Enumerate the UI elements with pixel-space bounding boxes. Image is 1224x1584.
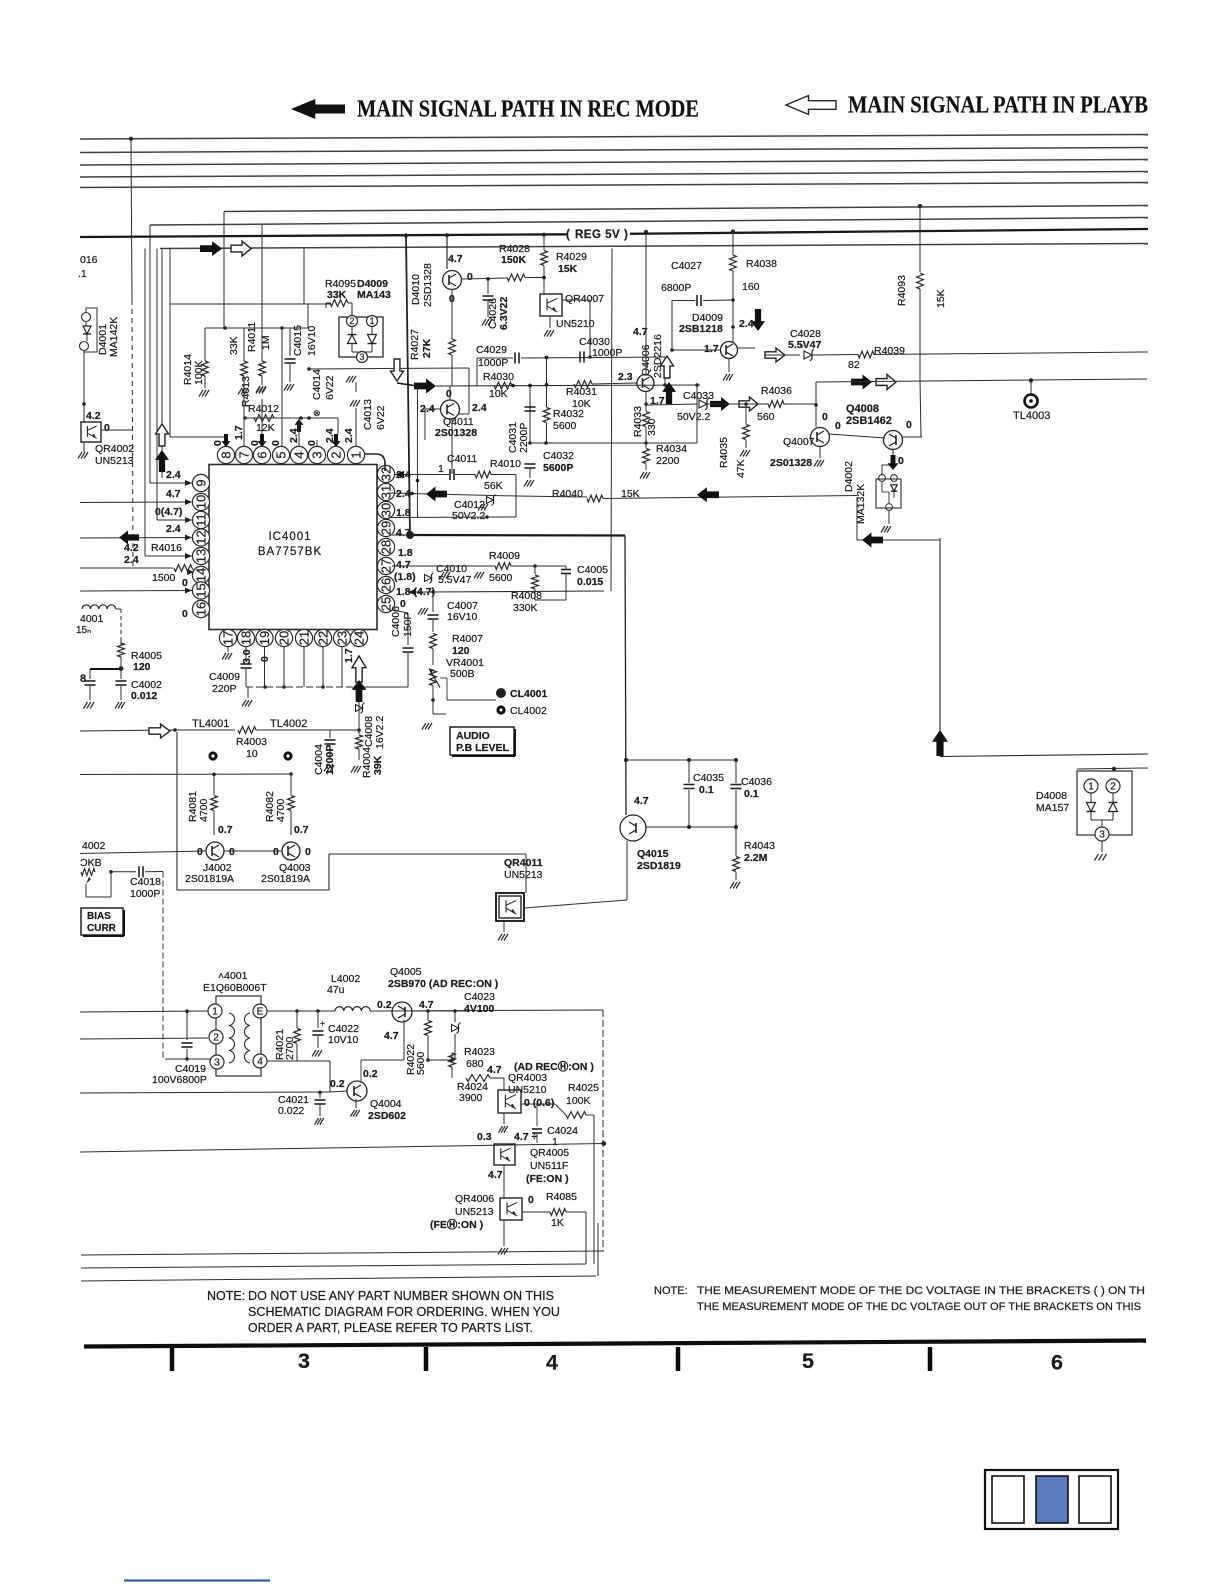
vertical wire x308 (307, 304, 309, 328)
svg-text:6V22: 6V22 (375, 405, 387, 430)
capacitor C4027 (696, 295, 698, 306)
capacitor C4022 10V10 (317, 1011, 319, 1028)
svg-text:2.4: 2.4 (166, 469, 181, 481)
svg-text:160: 160 (742, 281, 760, 293)
wire to R4031 (554, 384, 700, 385)
svg-text:82: 82 (848, 359, 860, 371)
svg-text:0: 0 (212, 440, 224, 446)
wire Q4015 collector vertical (625, 536, 626, 816)
svg-text:2200: 2200 (656, 455, 680, 467)
resistor R4011 1M (261, 328, 263, 361)
wire secondary 4 out (267, 1060, 297, 1062)
wire Q4008 emitter down to D4002 (892, 450, 894, 466)
ground QR4002 (83, 442, 85, 452)
svg-text:1000P: 1000P (130, 888, 160, 900)
resistor R4040 15K (587, 495, 603, 502)
svg-text:330K: 330K (513, 602, 538, 614)
long vertical wire x603 (602, 1010, 604, 1251)
opto QR4005 UN511F (494, 1144, 515, 1165)
svg-text:UN5213: UN5213 (504, 869, 543, 881)
svg-text:1: 1 (1088, 781, 1094, 792)
bus wire 2 (80, 148, 1148, 153)
svg-text:C4005: C4005 (577, 564, 608, 576)
svg-text:TL4003: TL4003 (1013, 410, 1050, 422)
wire cluster second (205, 327, 308, 329)
svg-text:C4006: C4006 (390, 606, 402, 637)
wire row 687 (246, 686, 359, 688)
diode pack D4001 MA142K (82, 313, 91, 322)
svg-text:100V6800P: 100V6800P (152, 1074, 207, 1086)
svg-text:4V100: 4V100 (464, 1003, 495, 1015)
svg-text:R4038: R4038 (746, 258, 777, 270)
svg-text:0 (0.6): 0 (0.6) (524, 1097, 554, 1109)
svg-text:R4040: R4040 (552, 488, 583, 500)
resistor R4022 5600 (427, 1011, 429, 1020)
transistor Q4008 (884, 431, 903, 450)
svg-text:4.7: 4.7 (384, 1030, 399, 1042)
wire R4095 to D4009 (348, 302, 352, 304)
pin14 wire resistor 1500 (80, 567, 173, 569)
svg-text:2SD1819: 2SD1819 (637, 860, 681, 872)
svg-text:R4007: R4007 (452, 633, 483, 645)
svg-text:UN5213: UN5213 (95, 455, 134, 467)
ground QR4003 (503, 1113, 505, 1124)
inductor L4001 15m (82, 605, 116, 609)
svg-text:18: 18 (238, 631, 253, 645)
resistor R4010 56K (475, 471, 491, 478)
transistor Q4004 2SD602 (347, 1081, 367, 1101)
svg-text:QR4006: QR4006 (455, 1193, 494, 1205)
capacitor C4015 16V10 (289, 328, 291, 356)
svg-text:BA7757BK: BA7757BK (258, 546, 322, 558)
svg-text:2SD2216: 2SD2216 (652, 334, 664, 378)
15K line pin31 net (389, 493, 516, 496)
svg-text:C4015: C4015 (292, 325, 304, 356)
svg-text:4001: 4001 (80, 613, 104, 625)
vertical feed x304 from bus9 (303, 249, 305, 305)
wire row 1092 to Q4004 (330, 1091, 347, 1092)
svg-text:D4002: D4002 (843, 461, 855, 492)
resistor R4004 39K (358, 730, 360, 734)
wire Q4015 emitter down (626, 841, 628, 900)
svg-text:1200P: 1200P (324, 745, 336, 775)
svg-text:0.7: 0.7 (294, 824, 309, 836)
nav page 2 active (1036, 1476, 1068, 1523)
wire row 756 right (940, 754, 1148, 757)
svg-text:Q4005: Q4005 (390, 966, 422, 978)
svg-text:R4034: R4034 (656, 443, 687, 455)
svg-text:0: 0 (528, 1194, 534, 1206)
direction arrows on bus 9 (200, 241, 222, 256)
wire Q4004 collector up (360, 1060, 362, 1083)
svg-text:8: 8 (80, 673, 86, 685)
svg-text:(1.8): (1.8) (394, 571, 416, 583)
svg-text:4.2: 4.2 (124, 542, 139, 554)
svg-text:+: + (320, 1018, 325, 1028)
svg-text:0: 0 (898, 455, 904, 467)
svg-text:ƆKB: ƆKB (80, 857, 102, 869)
wire L4002 out to x603 (370, 1010, 603, 1011)
svg-text:REG 5V: REG 5V (575, 229, 620, 241)
wire QR4002 out (101, 429, 133, 431)
wire input row 1092 (80, 1092, 330, 1093)
wire row 1143 (80, 1144, 604, 1153)
svg-text:13: 13 (193, 549, 208, 563)
svg-text:2: 2 (349, 316, 354, 326)
svg-text:21: 21 (296, 631, 311, 645)
capacitor C4007 16V10 (432, 592, 434, 612)
vertical feed x150 (149, 225, 151, 483)
black left arrow on 15K line (697, 487, 719, 502)
resistor R4032 5600 (546, 358, 548, 408)
svg-text:27: 27 (378, 559, 393, 573)
svg-text:0: 0 (270, 440, 282, 446)
svg-text:C4023: C4023 (464, 991, 495, 1003)
svg-text:4.7: 4.7 (396, 527, 411, 539)
svg-text:0.012: 0.012 (131, 690, 157, 702)
transistor Q4007 2SD1328 (811, 428, 830, 447)
svg-text:33K: 33K (327, 289, 347, 301)
bus wire 4 (80, 172, 1148, 178)
wire R4024 to QR4003 (490, 1077, 504, 1079)
svg-text:1: 1 (212, 1006, 218, 1017)
svg-text:100K: 100K (566, 1095, 591, 1107)
wire C4029 corner down (476, 358, 478, 386)
svg-text:D4008: D4008 (1036, 790, 1067, 802)
wire Q4002-Q4003 row (224, 850, 282, 852)
thick node row 669 (90, 668, 121, 670)
svg-text:15K: 15K (558, 263, 578, 275)
vertical x697 (696, 385, 698, 443)
resistor R4021 2700 (296, 1011, 298, 1028)
vertical wire x594 (593, 1115, 595, 1264)
transistor Q4015 2SD1819 (620, 815, 646, 841)
vertical box wire x170 (169, 249, 171, 438)
arrows row 382 (851, 375, 872, 390)
svg-text:D4010: D4010 (410, 274, 422, 305)
svg-text:10K: 10K (489, 388, 508, 400)
capacitor C4031 2200P (525, 406, 536, 408)
svg-text:CL4001: CL4001 (510, 688, 548, 700)
svg-text:THE MEASUREMENT MODE OF THE DC: THE MEASUREMENT MODE OF THE DC VOLTAGE I… (697, 1285, 1145, 1297)
svg-text:C4036: C4036 (741, 776, 772, 788)
capacitor C4036 0.1 (735, 760, 737, 783)
bottom wire row 1264 (81, 1264, 586, 1268)
capacitor C4006 150P (403, 647, 414, 649)
svg-text:47K: 47K (735, 459, 747, 478)
svg-text:30: 30 (378, 503, 393, 517)
svg-text:0: 0 (467, 271, 473, 283)
resistor R4030 10K (494, 382, 512, 389)
transistor Q4011 2SD1328 (441, 400, 460, 419)
title arrow solid (REC mode) (291, 99, 345, 119)
wire x469 corner to Q4011 emitter (468, 368, 470, 414)
arrow into pin32 (395, 471, 404, 478)
svg-text:12: 12 (193, 530, 208, 544)
svg-text:220P: 220P (212, 683, 237, 695)
svg-text:2SB970 (AD REC:ON ): 2SB970 (AD REC:ON ) (388, 978, 498, 990)
svg-text:R4027: R4027 (409, 329, 421, 360)
svg-text:4.2: 4.2 (86, 410, 101, 422)
junction (82, 402, 86, 406)
svg-text:2S01819A: 2S01819A (185, 873, 234, 885)
svg-text:2700: 2700 (284, 1036, 296, 1060)
wire pin24 down2 (358, 712, 360, 730)
svg-text:R4085: R4085 (546, 1191, 577, 1203)
svg-text:R4033: R4033 (632, 406, 644, 437)
svg-text:3: 3 (359, 352, 364, 362)
wire pin7 stub to R4013 (243, 376, 245, 447)
svg-text:4700: 4700 (275, 798, 287, 822)
svg-text:1.7: 1.7 (704, 343, 719, 355)
svg-text:27K: 27K (421, 338, 433, 358)
vertical wire x598 (597, 1223, 599, 1276)
thick signal wire pin29 right (410, 534, 625, 537)
svg-text:6V22: 6V22 (324, 375, 336, 400)
svg-text:4.7: 4.7 (396, 559, 411, 571)
svg-text:R4025: R4025 (568, 1082, 599, 1094)
svg-text:(: ( (566, 229, 570, 241)
svg-text:R4030: R4030 (483, 371, 514, 383)
resistor R4028 150K vertical (541, 251, 548, 266)
svg-text:TL4001: TL4001 (192, 718, 229, 730)
svg-text:2200P: 2200P (518, 423, 530, 453)
svg-text:E: E (257, 1006, 264, 1017)
vertical feed x262 to R4011 row (261, 225, 263, 328)
svg-text:1000P: 1000P (592, 347, 622, 359)
svg-text:33K: 33K (228, 336, 240, 355)
transformer pins (208, 1004, 222, 1018)
capacitor C4018 1000P (138, 866, 140, 877)
ground Q4007 (819, 446, 821, 458)
svg-text:3: 3 (298, 1349, 310, 1373)
svg-text:120: 120 (133, 661, 151, 673)
wire Q4009 emitter right arrow (738, 347, 755, 349)
svg-text:1000P: 1000P (478, 357, 508, 369)
svg-text:2SD1328: 2SD1328 (422, 263, 434, 307)
resistor R4009 5600 (495, 563, 511, 570)
resistor R4095 33K (330, 300, 348, 307)
svg-text:NOTE:: NOTE: (207, 1289, 245, 1303)
pin13 wire 4.2 R4016 (145, 555, 192, 557)
wire input row 1038 (80, 1038, 208, 1039)
resistor R4034 2200 (645, 443, 647, 448)
bus wire 1 (80, 135, 1148, 140)
svg-text:0.3: 0.3 (477, 1131, 492, 1143)
svg-text:3900: 3900 (459, 1092, 483, 1104)
svg-text:4002: 4002 (82, 840, 106, 852)
ruler tick 4 (928, 1347, 933, 1371)
transistor Q4010 2SD1328 (443, 271, 462, 290)
wire Q4005 base down (403, 1020, 405, 1060)
wire Q4005 base down (403, 1020, 405, 1045)
direction arrows up x667 (661, 356, 674, 378)
solid down arrow above D4002 (888, 455, 899, 470)
svg-text:C4032: C4032 (543, 450, 574, 462)
primary winding (229, 1013, 235, 1026)
svg-text:5600: 5600 (415, 1051, 427, 1075)
svg-text:2SB1462: 2SB1462 (846, 415, 892, 427)
svg-text:QR4007: QR4007 (565, 293, 604, 305)
resistor R4035 47K (745, 404, 747, 424)
wire D4002 net down to x940 (888, 0, 890, 538)
svg-text:BIAS: BIAS (87, 911, 111, 922)
svg-text:560: 560 (757, 411, 775, 423)
capacitor C4002 0.012 pair (89, 669, 91, 679)
capacitor C4032 5600P (525, 463, 536, 465)
vertical x163 down (162, 872, 164, 1060)
svg-text:0: 0 (306, 440, 318, 446)
svg-text:7: 7 (236, 451, 251, 458)
svg-text:0: 0 (197, 846, 203, 858)
svg-text:Q4015: Q4015 (637, 848, 669, 860)
resistor R4039 82 (858, 351, 874, 358)
resistor R4012 12K (245, 417, 338, 419)
ground pin17 (227, 647, 229, 652)
bus wire 6 (224, 206, 1148, 212)
svg-text:C4029: C4029 (476, 344, 507, 356)
svg-text:2: 2 (1110, 781, 1116, 792)
wire QR4007 right to vert (562, 299, 590, 301)
svg-text:4.7: 4.7 (166, 488, 181, 500)
wire pin30 row 517 (389, 516, 516, 519)
vertical wire x665 C4029/C4030 node (664, 357, 666, 385)
svg-text:4.7 ÷: 4.7 ÷ (514, 1131, 538, 1143)
resistor R4003 10 (238, 727, 256, 734)
svg-text:R4043: R4043 (744, 840, 775, 852)
svg-text:Q4004: Q4004 (370, 1098, 402, 1110)
capacitor C4011 1 (449, 469, 451, 480)
vertical wire x530 C4031 (529, 386, 531, 444)
svg-text:R4035: R4035 (718, 437, 730, 468)
pin12 wire 2.4 with arrow (80, 537, 192, 540)
svg-text:4700: 4700 (198, 798, 210, 822)
svg-text:DO NOT USE ANY PART NUMBER SHO: DO NOT USE ANY PART NUMBER SHOWN ON THIS (248, 1289, 554, 1303)
svg-text:4: 4 (291, 451, 306, 458)
ground QR4006 (503, 1220, 505, 1246)
svg-text:ORDER A PART, PLEASE REFER TO: ORDER A PART, PLEASE REFER TO PARTS LIST… (248, 1321, 533, 1335)
wire row 730 from left (80, 730, 175, 731)
wire input row 1011 (80, 1011, 208, 1012)
resistor R4036 560 (768, 401, 784, 408)
wire row 405 C4033 (646, 404, 697, 405)
wire base row 827 (646, 826, 736, 828)
svg-text:(FEⒽ:ON ): (FEⒽ:ON ) (430, 1218, 483, 1231)
wire 15K line down corner (856, 497, 858, 540)
svg-text:5.5V47: 5.5V47 (788, 339, 821, 351)
arrows row 404 (710, 397, 730, 411)
wire x672 vertical (671, 300, 673, 350)
wire to C4018 (111, 871, 136, 873)
svg-text:0: 0 (835, 420, 841, 432)
svg-text:1K: 1K (551, 1217, 564, 1229)
svg-text:MAIN SIGNAL PATH IN REC MODE: MAIN SIGNAL PATH IN REC MODE (357, 97, 699, 123)
svg-text:2S01328: 2S01328 (770, 457, 812, 469)
IC top pins 8-1 (217, 446, 234, 463)
inductor L4002 47u (335, 1007, 370, 1011)
svg-text:2.4: 2.4 (166, 523, 181, 535)
svg-text:R4029: R4029 (556, 251, 587, 263)
wire pin28/27 net R4009 (392, 565, 495, 567)
capacitor C4004 1200P (329, 730, 331, 738)
pin9 wire 2.4 (150, 482, 192, 484)
svg-text:330: 330 (646, 418, 658, 436)
wire R4031 right to Q4006 base (592, 383, 637, 384)
ruler tick 2 (424, 1347, 429, 1371)
wire row 382 to right (816, 379, 1147, 382)
wire Q4006 collector up (645, 232, 647, 374)
svg-text:CL4002: CL4002 (510, 705, 547, 717)
svg-text:16V2.2: 16V2.2 (374, 716, 386, 749)
svg-text:4: 4 (546, 1351, 558, 1375)
wire QR4011 output to Q4015 emitter (524, 900, 627, 908)
transistor Q4009 (721, 342, 738, 359)
small hatch marks (440, 572, 444, 579)
pot VR4001 500B (430, 671, 437, 686)
svg-text:5600: 5600 (489, 572, 513, 584)
svg-text:R4012: R4012 (248, 403, 279, 415)
svg-text:R4032: R4032 (553, 408, 584, 420)
junction big dot pin29 line (406, 531, 414, 539)
svg-text:2.4: 2.4 (472, 402, 487, 414)
wire x165 to pin3 (163, 1058, 165, 1060)
ground under C4009 row (247, 687, 249, 698)
svg-text:P.B LEVEL: P.B LEVEL (456, 742, 509, 754)
IC right pins 32-25 (377, 465, 394, 482)
svg-text:IC4001: IC4001 (268, 531, 311, 543)
svg-text:CURR: CURR (87, 923, 117, 934)
svg-text:50V2.2: 50V2.2 (452, 510, 485, 522)
vertical wire x406 thick feed (406, 236, 410, 536)
resistor R4093 15K vertical (918, 204, 922, 208)
pin25 wire to C4006 (392, 610, 408, 613)
capacitor C4019 100V6800P (186, 1011, 188, 1040)
svg-text:MA142K: MA142K (108, 317, 120, 357)
wire pin24 node down (358, 684, 360, 730)
wire row 853 left (80, 851, 206, 854)
transistor Q4003 2SD1819A (282, 842, 300, 860)
svg-text:0: 0 (906, 419, 912, 431)
solid up arrow x359 (352, 680, 367, 702)
svg-text:): ) (624, 229, 628, 241)
svg-text:C4018: C4018 (130, 876, 161, 888)
svg-text:4: 4 (257, 1056, 263, 1067)
svg-text:TL4002: TL4002 (270, 718, 307, 730)
svg-text:0.1: 0.1 (744, 788, 759, 800)
svg-text:2SB1218: 2SB1218 (679, 323, 723, 335)
wire box bottom to pin8 (170, 436, 226, 438)
svg-text:6.3V22: 6.3V22 (498, 297, 510, 330)
resistor R4027 27K (449, 339, 456, 355)
svg-text:10V10: 10V10 (328, 1034, 359, 1046)
ground Q4009 (728, 359, 730, 372)
AUDIO P.B LEVEL box (450, 727, 514, 755)
svg-text:100K: 100K (193, 360, 205, 385)
svg-text:31: 31 (378, 485, 393, 499)
hollow up arrow pin24 (352, 656, 366, 682)
resistor R4023 680 (449, 1053, 456, 1067)
bus wire 5 (80, 183, 1148, 188)
svg-text:0: 0 (273, 846, 279, 858)
svg-text:2.4: 2.4 (739, 318, 754, 330)
pot feedback bias (81, 869, 95, 876)
secondary winding (244, 1013, 250, 1026)
svg-text:UN5210: UN5210 (556, 318, 595, 330)
svg-text:26: 26 (378, 578, 393, 592)
svg-text:1M: 1M (260, 335, 272, 350)
IC4001 body (209, 465, 377, 630)
svg-text:12K: 12K (256, 422, 275, 434)
